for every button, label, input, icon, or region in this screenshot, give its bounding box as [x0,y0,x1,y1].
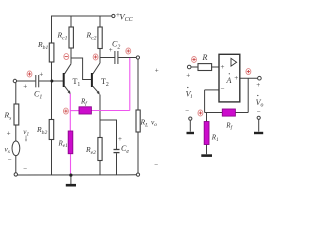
svg-text:A: A [226,76,232,85]
svg-text:+: + [23,83,27,91]
svg-text:+: + [7,130,11,138]
svg-text:+: + [186,72,190,80]
svg-text:+: + [118,135,122,143]
svg-text:R: R [202,53,208,62]
svg-text:+: + [39,70,43,78]
svg-text:+: + [155,66,159,74]
svg-text:−: − [154,161,158,169]
svg-text:+: + [109,46,113,54]
svg-text:+: + [221,63,225,71]
svg-text:+: + [234,74,238,82]
svg-text:−: − [23,165,27,173]
svg-text:−: − [221,85,225,93]
svg-text:−: − [257,108,261,116]
svg-text:+: + [256,81,260,89]
svg-text:−: − [185,107,189,115]
svg-text:−: − [8,156,12,164]
